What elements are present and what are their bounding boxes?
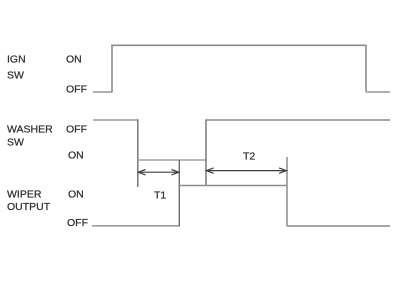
svg-text:ON: ON bbox=[66, 53, 82, 65]
wire WIPER OFF level right bbox=[287, 225, 390, 227]
svg-text:OFF: OFF bbox=[67, 217, 88, 229]
svg-text:OFF: OFF bbox=[66, 83, 87, 95]
svg-text:ON: ON bbox=[68, 189, 84, 201]
dimension arrow T1 bbox=[138, 170, 179, 175]
wire WASHER falling edge extended to T1 boundary bbox=[137, 119, 139, 187]
svg-text:T2: T2 bbox=[243, 150, 255, 162]
wire IGN falling edge bbox=[365, 45, 367, 92]
svg-text:SW: SW bbox=[7, 69, 24, 81]
svg-text:ON: ON bbox=[68, 149, 84, 161]
svg-text:WIPER: WIPER bbox=[7, 189, 42, 201]
wire WASHER rising edge extended to T2 boundary bbox=[205, 119, 207, 186]
dimension arrow T2 bbox=[206, 168, 286, 173]
svg-text:IGN: IGN bbox=[7, 53, 26, 65]
wire IGN OFF stub left bbox=[93, 91, 112, 93]
wire IGN ON level bbox=[111, 44, 366, 46]
wire WIPER rising edge extended to T1 boundary bbox=[178, 160, 180, 227]
svg-text:SW: SW bbox=[7, 136, 24, 148]
wire WASHER ON level bbox=[138, 159, 206, 161]
svg-text:T1: T1 bbox=[154, 190, 166, 202]
svg-text:OFF: OFF bbox=[66, 124, 87, 136]
wire WIPER falling edge extended to T2 boundary bbox=[286, 157, 288, 227]
wire IGN OFF stub right bbox=[366, 91, 390, 93]
svg-text:WASHER: WASHER bbox=[7, 124, 53, 136]
wire IGN rising edge bbox=[111, 45, 113, 93]
wire WIPER ON level bbox=[179, 185, 287, 187]
wire WASHER OFF level left bbox=[93, 119, 138, 121]
svg-text:OUTPUT: OUTPUT bbox=[7, 201, 51, 213]
wire WIPER OFF level left bbox=[92, 225, 179, 227]
wire WASHER OFF level right bbox=[206, 119, 390, 121]
